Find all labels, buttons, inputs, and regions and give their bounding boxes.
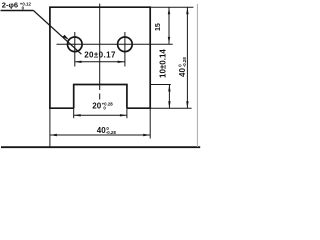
svg-text:-0.28: -0.28 [106,130,117,135]
arrowhead notch 20 left [74,114,81,116]
arrowhead 15 bottom [168,37,170,44]
notch top extension line right [150,84,171,86]
hole left circle [68,37,83,52]
bottom-right extension line [149,108,151,138]
hole right circle [118,37,133,52]
leader arrowhead at hole [63,35,70,40]
svg-text:20: 20 [92,102,101,111]
arrowhead 40 bottom left [50,134,57,136]
bottom-left extension line [49,108,51,147]
dimension line 15 [168,7,170,44]
left hole vertical centerline [74,32,76,67]
plate bottom extension line right [150,107,191,109]
arrowhead 20±0.17 left [75,61,82,63]
arrowhead notch 20 right [120,114,127,116]
svg-text:-0.28: -0.28 [182,57,187,68]
plate right edge [149,6,151,109]
notch top edge [73,84,128,86]
arrowhead 40 right top [186,7,188,14]
part vertical centerline [99,4,101,90]
plate bottom edge left segment [50,107,74,109]
svg-text:20±0.17: 20±0.17 [84,51,116,60]
top-right extension line [150,6,193,8]
notch right wall [126,85,128,109]
right hole vertical centerline [124,32,126,67]
dimension line 10±0.14 [168,85,170,109]
svg-text:10±0.14: 10±0.14 [158,49,167,78]
arrowhead 40 right bottom [186,101,188,108]
leader diagonal to left hole [33,11,81,55]
arrowhead 20±0.17 right [118,61,125,63]
notch left wall [73,85,75,109]
svg-text:2-φ6: 2-φ6 [2,1,18,10]
arrowhead 10 top [168,85,170,92]
scan frame right border [196,4,198,147]
plate bottom edge right segment [127,107,150,109]
notch left extension stub [73,108,75,118]
dimension line 40 right [186,7,188,108]
arrowhead 10 bottom [168,101,170,108]
notch right extension stub [126,108,128,118]
dimension line 40 bottom [50,134,150,136]
horizontal centerline through holes [57,43,173,45]
part vertical centerline tail [99,94,101,100]
svg-text:40: 40 [178,68,187,77]
dimension line 20±0.17 [75,61,125,63]
svg-text:15: 15 [155,23,162,31]
plate top edge [50,6,150,8]
leader horizontal tail [1,10,34,12]
arrowhead 15 top [168,7,170,14]
plate left edge [49,6,51,109]
scan frame bottom border [1,146,200,148]
arrowhead 40 bottom right [143,134,150,136]
dimension line 20+0.28 notch width [74,114,127,116]
